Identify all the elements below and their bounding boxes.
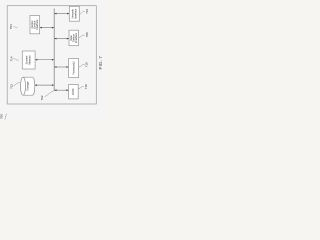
svg-text:Processor(s): Processor(s)	[72, 61, 75, 74]
svg-text:Storage: Storage	[26, 81, 30, 91]
svg-text:714: 714	[10, 56, 14, 61]
svg-text:708: 708	[85, 32, 89, 37]
svg-text:Interface: Interface	[35, 19, 39, 30]
svg-text:Interface: Interface	[73, 8, 77, 19]
svg-text:ROM: ROM	[71, 89, 75, 95]
svg-text:700: 700	[0, 114, 4, 119]
svg-text:716: 716	[85, 9, 89, 14]
svg-text:FIG. 7: FIG. 7	[98, 56, 104, 70]
svg-text:702: 702	[40, 95, 44, 100]
svg-text:704: 704	[9, 24, 13, 29]
svg-text:710: 710	[85, 62, 89, 67]
svg-text:Memory: Memory	[28, 55, 32, 65]
svg-text:712: 712	[10, 84, 14, 89]
svg-text:718: 718	[84, 84, 88, 89]
svg-text:Interface: Interface	[74, 32, 78, 43]
